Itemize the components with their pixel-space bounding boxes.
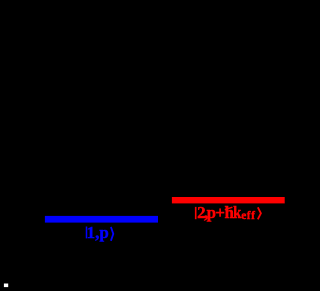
red label: right angle bracket of ket [258,207,261,219]
red label: hbar slash stroke [225,207,233,210]
svg-text:eff: eff [241,210,255,222]
red label: ket pipe | [195,207,197,219]
blue label: ket pipe | [86,227,88,239]
energy level bar |1,p> (blue, lower level) [45,216,158,223]
energy level bar |2,p+hbar.k_eff> (red, upper level) [172,197,285,203]
svg-text:1,p: 1,p [87,223,109,242]
white marker square bottom-left [4,284,8,288]
blue label: right angle bracket of ket [111,227,113,241]
